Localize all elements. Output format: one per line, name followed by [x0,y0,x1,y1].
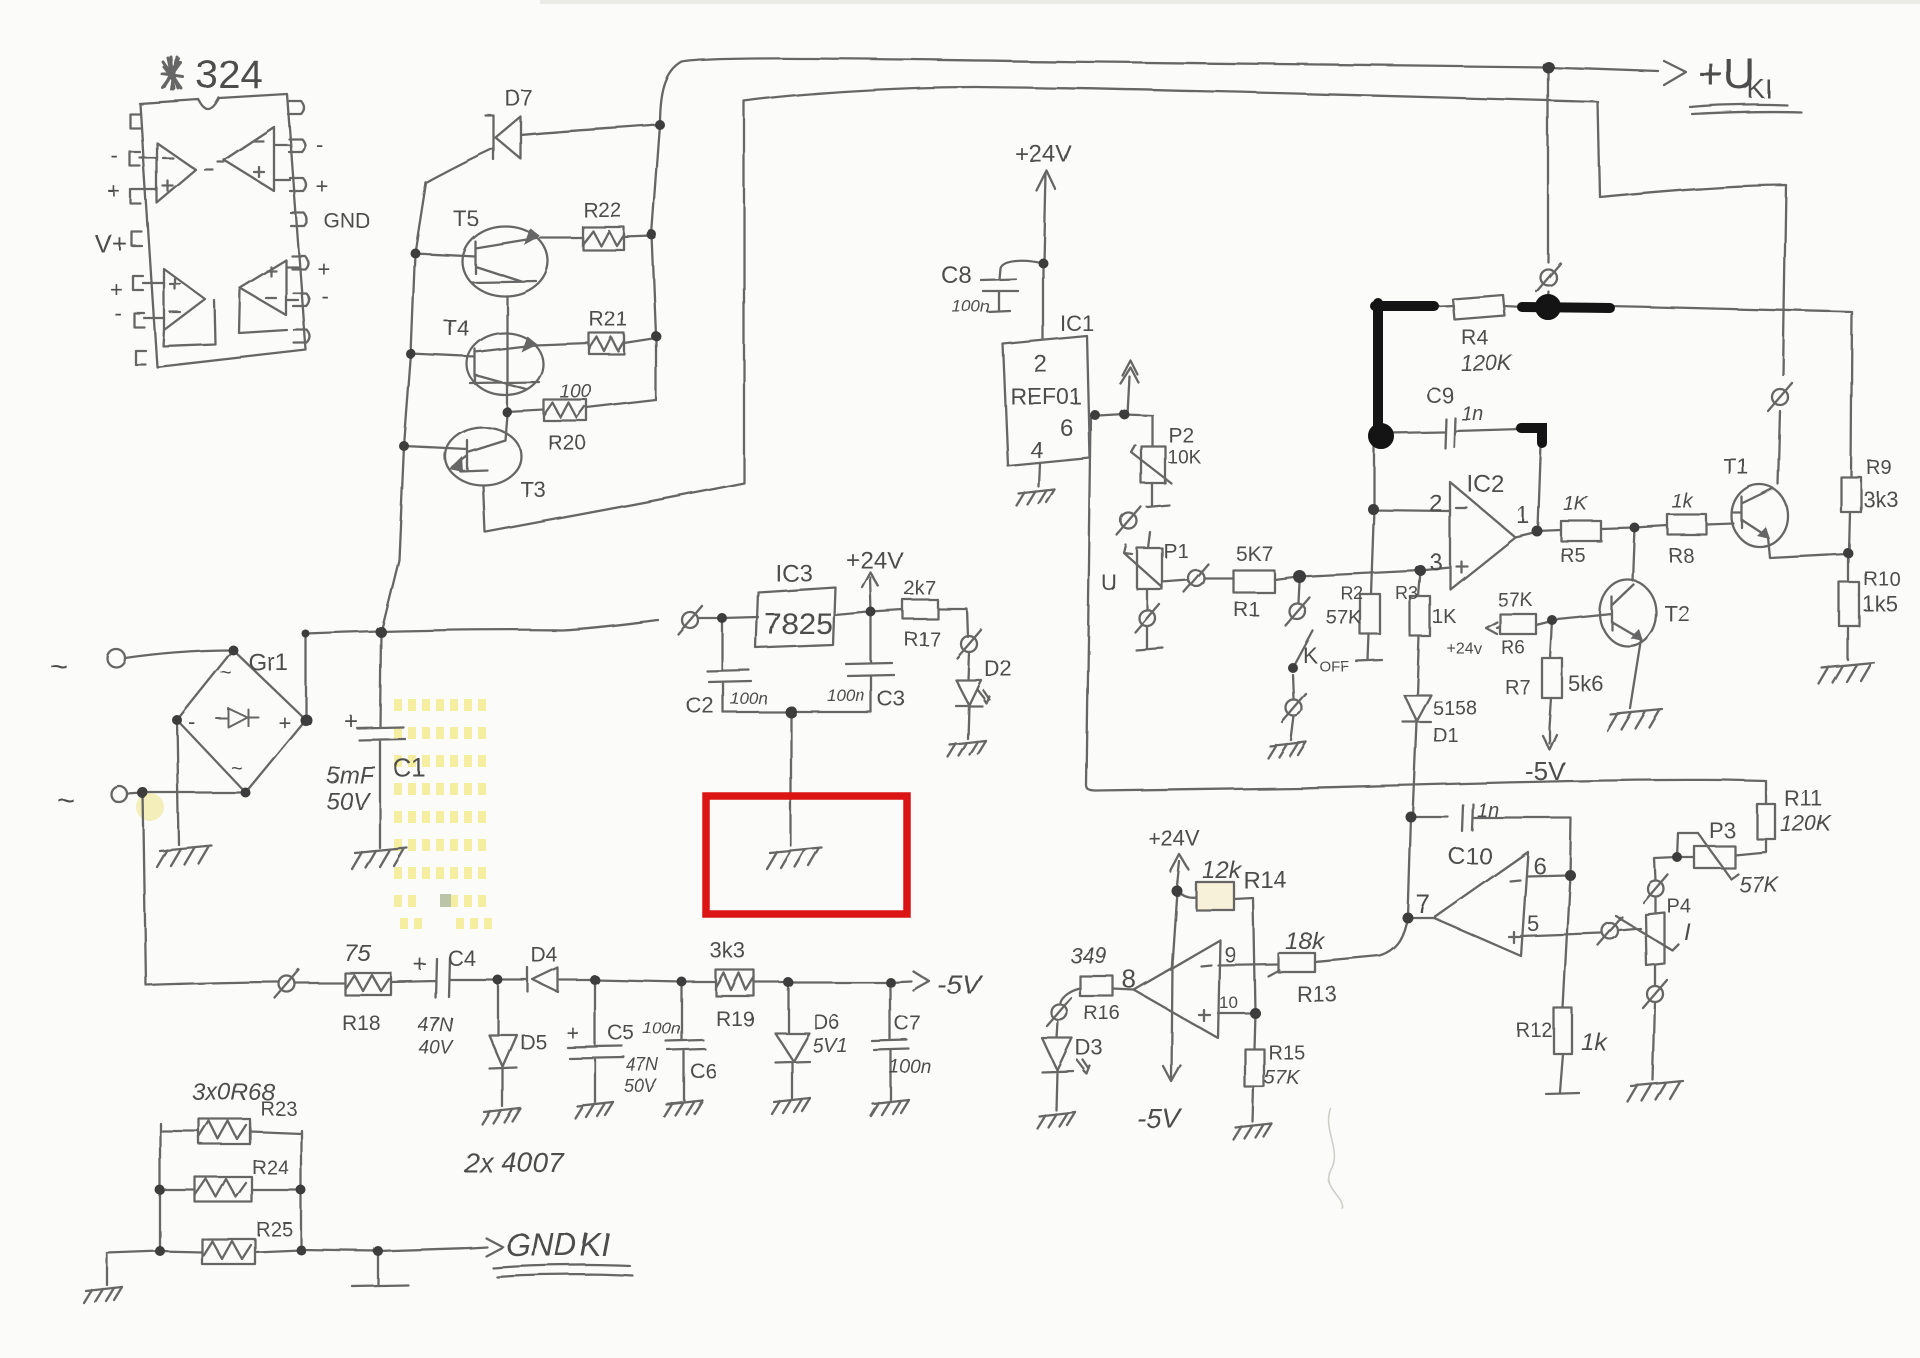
svg-text:100: 100 [560,382,592,403]
svg-text:5K7: 5K7 [1236,543,1273,566]
svg-text:-: - [114,300,121,325]
svg-text:324: 324 [196,53,263,97]
svg-text:57K: 57K [1264,1067,1301,1089]
svg-text:R11: R11 [1784,786,1823,811]
svg-text:5V1: 5V1 [812,1035,848,1057]
svg-text:1K: 1K [1563,493,1589,515]
svg-text:D5: D5 [520,1031,547,1054]
svg-text:IC2: IC2 [1467,471,1504,498]
svg-text:R22: R22 [583,199,622,222]
svg-text:R18: R18 [342,1012,381,1035]
svg-text:+24V: +24V [1015,141,1072,168]
svg-text:57K: 57K [1497,589,1533,611]
svg-text:REF01: REF01 [1010,383,1082,409]
svg-text:47N: 47N [626,1055,660,1075]
svg-text:V+: V+ [95,229,128,259]
svg-text:~: ~ [231,758,243,780]
svg-text:R5: R5 [1560,545,1586,567]
svg-text:5mF: 5mF [326,762,375,789]
svg-text:1: 1 [1516,502,1529,529]
svg-text:+: + [278,710,291,735]
svg-text:+: + [344,708,358,735]
svg-text:R1: R1 [1233,598,1260,621]
svg-text:-5V: -5V [937,969,983,1000]
svg-text:P1: P1 [1163,540,1189,563]
svg-text:1k: 1k [1581,1029,1608,1056]
svg-text:2: 2 [1034,351,1047,378]
svg-text:T1: T1 [1723,454,1749,479]
svg-text:T3: T3 [520,477,546,502]
svg-text:~: ~ [50,650,68,683]
svg-text:C7: C7 [894,1012,921,1035]
svg-text:D3: D3 [1075,1035,1103,1060]
svg-text:-: - [111,143,118,168]
svg-text:+: + [317,256,330,281]
svg-text:P4: P4 [1666,895,1690,917]
svg-text:R21: R21 [589,308,628,331]
svg-text:7825: 7825 [764,606,833,641]
svg-text:R9: R9 [1866,457,1892,479]
svg-text:IC3: IC3 [775,560,812,587]
svg-text:-: - [321,283,328,308]
svg-text:~: ~ [220,662,232,684]
svg-text:5: 5 [1527,911,1539,936]
svg-text:T2: T2 [1664,601,1690,626]
svg-text:R19: R19 [716,1008,755,1031]
svg-text:+: + [110,277,123,302]
svg-text:-5V: -5V [1137,1103,1183,1134]
svg-text:P3: P3 [1709,818,1736,843]
svg-text:100n: 100n [889,1057,931,1078]
svg-text:5k6: 5k6 [1568,671,1603,696]
svg-text:6: 6 [1060,415,1073,442]
svg-text:GND: GND [506,1227,577,1263]
svg-text:+: + [566,1020,579,1045]
svg-text:+: + [316,174,329,199]
svg-text:50V: 50V [624,1076,658,1096]
svg-text:1k5: 1k5 [1862,591,1897,616]
svg-text:R16: R16 [1084,1003,1121,1025]
svg-text:10K: 10K [1167,447,1201,468]
svg-text:7: 7 [1416,889,1430,919]
svg-text:OFF: OFF [1319,658,1349,675]
svg-text:100n: 100n [827,686,865,705]
svg-text:120K: 120K [1780,811,1833,836]
svg-text:2: 2 [1429,490,1442,517]
svg-text:3: 3 [1429,549,1442,576]
svg-text:KI: KI [1747,74,1773,104]
svg-text:75: 75 [344,940,371,967]
svg-text:T4: T4 [444,316,470,341]
svg-text:~: ~ [57,784,75,817]
svg-text:KI: KI [580,1227,610,1263]
svg-text:D4: D4 [531,944,558,967]
svg-text:10: 10 [1219,993,1238,1012]
svg-text:U: U [1101,570,1117,595]
svg-text:R24: R24 [252,1157,289,1179]
svg-text:+: + [108,179,121,204]
svg-text:100n: 100n [643,1019,681,1038]
svg-text:C2: C2 [686,693,714,718]
svg-text:3k3: 3k3 [710,938,745,963]
svg-text:Gr1: Gr1 [248,649,288,676]
svg-text:I: I [1684,919,1691,946]
svg-text:T5: T5 [453,206,479,231]
svg-text:C8: C8 [941,262,972,289]
svg-text:100n: 100n [952,297,990,316]
svg-text:R25: R25 [256,1219,293,1241]
svg-text:R20: R20 [548,432,587,455]
svg-text:R14: R14 [1243,867,1287,894]
svg-text:57K: 57K [1739,872,1779,897]
svg-text:12k: 12k [1202,857,1243,884]
svg-text:40V: 40V [418,1037,454,1058]
svg-text:C9: C9 [1426,383,1454,408]
svg-text:R23: R23 [260,1098,297,1120]
svg-text:2x 4007: 2x 4007 [463,1147,565,1178]
svg-text:R13: R13 [1297,982,1337,1007]
svg-text:C6: C6 [690,1060,717,1083]
svg-text:D6: D6 [813,1011,840,1034]
svg-text:R10: R10 [1863,568,1900,590]
svg-text:R17: R17 [904,629,941,651]
svg-text:C10: C10 [1448,843,1492,870]
svg-text:9: 9 [1224,942,1236,967]
svg-text:C5: C5 [608,1022,635,1045]
svg-text:R8: R8 [1668,545,1694,567]
svg-text:+24V: +24V [1148,826,1200,851]
svg-text:349: 349 [1070,943,1107,968]
svg-text:R6: R6 [1501,638,1525,659]
svg-text:1n: 1n [1477,800,1499,822]
svg-text:-: - [188,709,195,734]
svg-text:1n: 1n [1461,403,1483,425]
svg-text:D7: D7 [505,86,533,111]
svg-text:120K: 120K [1461,351,1514,376]
svg-text:R7: R7 [1505,677,1531,699]
svg-text:5158: 5158 [1433,698,1478,720]
svg-text:R2: R2 [1340,583,1363,603]
svg-text:8: 8 [1122,964,1136,994]
svg-text:GND: GND [324,210,371,233]
svg-text:C4: C4 [448,946,476,971]
svg-text:C3: C3 [877,686,905,711]
svg-text:IC1: IC1 [1060,311,1094,336]
svg-text:R15: R15 [1268,1042,1305,1064]
svg-text:3k3: 3k3 [1863,487,1898,512]
svg-text:4: 4 [1030,437,1043,464]
svg-text:R12: R12 [1516,1020,1553,1042]
svg-text:2k7: 2k7 [904,578,936,600]
svg-text:18k: 18k [1285,928,1326,955]
svg-text:D1: D1 [1433,725,1459,747]
svg-text:+: + [413,951,427,978]
svg-text:D2: D2 [984,656,1012,681]
svg-text:C1: C1 [393,753,426,783]
svg-text:+24v: +24v [1447,641,1482,658]
svg-text:P2: P2 [1168,424,1194,447]
svg-text:100n: 100n [730,689,768,708]
svg-text:47N: 47N [418,1015,453,1036]
svg-text:R3: R3 [1395,583,1418,603]
svg-text:-: - [316,132,323,157]
svg-text:K: K [1303,643,1318,668]
svg-text:1k: 1k [1672,491,1694,513]
svg-text:+24V: +24V [846,547,903,574]
svg-text:R4: R4 [1462,327,1489,350]
svg-text:1K: 1K [1432,606,1457,628]
svg-text:50V: 50V [326,788,371,815]
svg-text:6: 6 [1533,853,1546,880]
svg-text:57K: 57K [1326,607,1362,629]
